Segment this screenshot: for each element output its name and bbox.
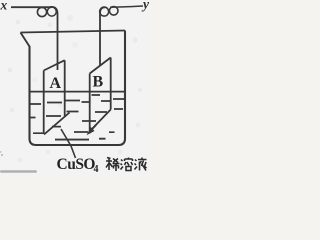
liquid shading dash row 2 bbox=[30, 109, 123, 121]
background (scanned-paper tone with speckle) bbox=[0, 0, 150, 174]
svg-text:4: 4 bbox=[94, 164, 99, 174]
label character 稀 (drawn strokes) bbox=[106, 158, 120, 172]
label character 溶 (drawn strokes) bbox=[121, 158, 133, 171]
liquid shading dash row 3 bbox=[33, 127, 115, 134]
wire from terminal x (horizontal lead) bbox=[11, 6, 51, 8]
svg-text:B: B bbox=[93, 74, 104, 91]
liquid surface line bbox=[30, 91, 125, 93]
scan artifact streak bottom-left bbox=[0, 170, 37, 172]
wire lead to terminal y bbox=[110, 6, 143, 7]
coil loop 2 of y wire bbox=[109, 7, 118, 16]
svg-text:CuSO: CuSO bbox=[57, 156, 96, 173]
arrow at bottom edge of electrode B bbox=[89, 125, 96, 133]
electrode plate B bbox=[90, 58, 111, 134]
electrode plate A bbox=[44, 60, 70, 134]
inner bottom line of beaker bbox=[55, 138, 106, 141]
liquid shading dash row 1 bbox=[30, 95, 125, 104]
label character 液 (drawn strokes) bbox=[135, 158, 147, 171]
coil loop 1 of y wire bbox=[100, 7, 109, 16]
wire bend down to electrode A bbox=[50, 7, 58, 70]
leader line to CuSO4 label bbox=[61, 129, 76, 158]
beaker wall (left, bottom, right) bbox=[30, 31, 126, 146]
coil loop 1 of x wire bbox=[37, 7, 46, 16]
beaker spout slant bbox=[21, 33, 30, 47]
coil loop 2 of x wire bbox=[47, 7, 56, 16]
scan artifact dot bbox=[1, 154, 3, 156]
svg-text:A: A bbox=[50, 75, 62, 92]
beaker rim bbox=[21, 31, 126, 33]
wire riser from electrode B bbox=[100, 7, 105, 66]
svg-text:x: x bbox=[0, 0, 8, 13]
